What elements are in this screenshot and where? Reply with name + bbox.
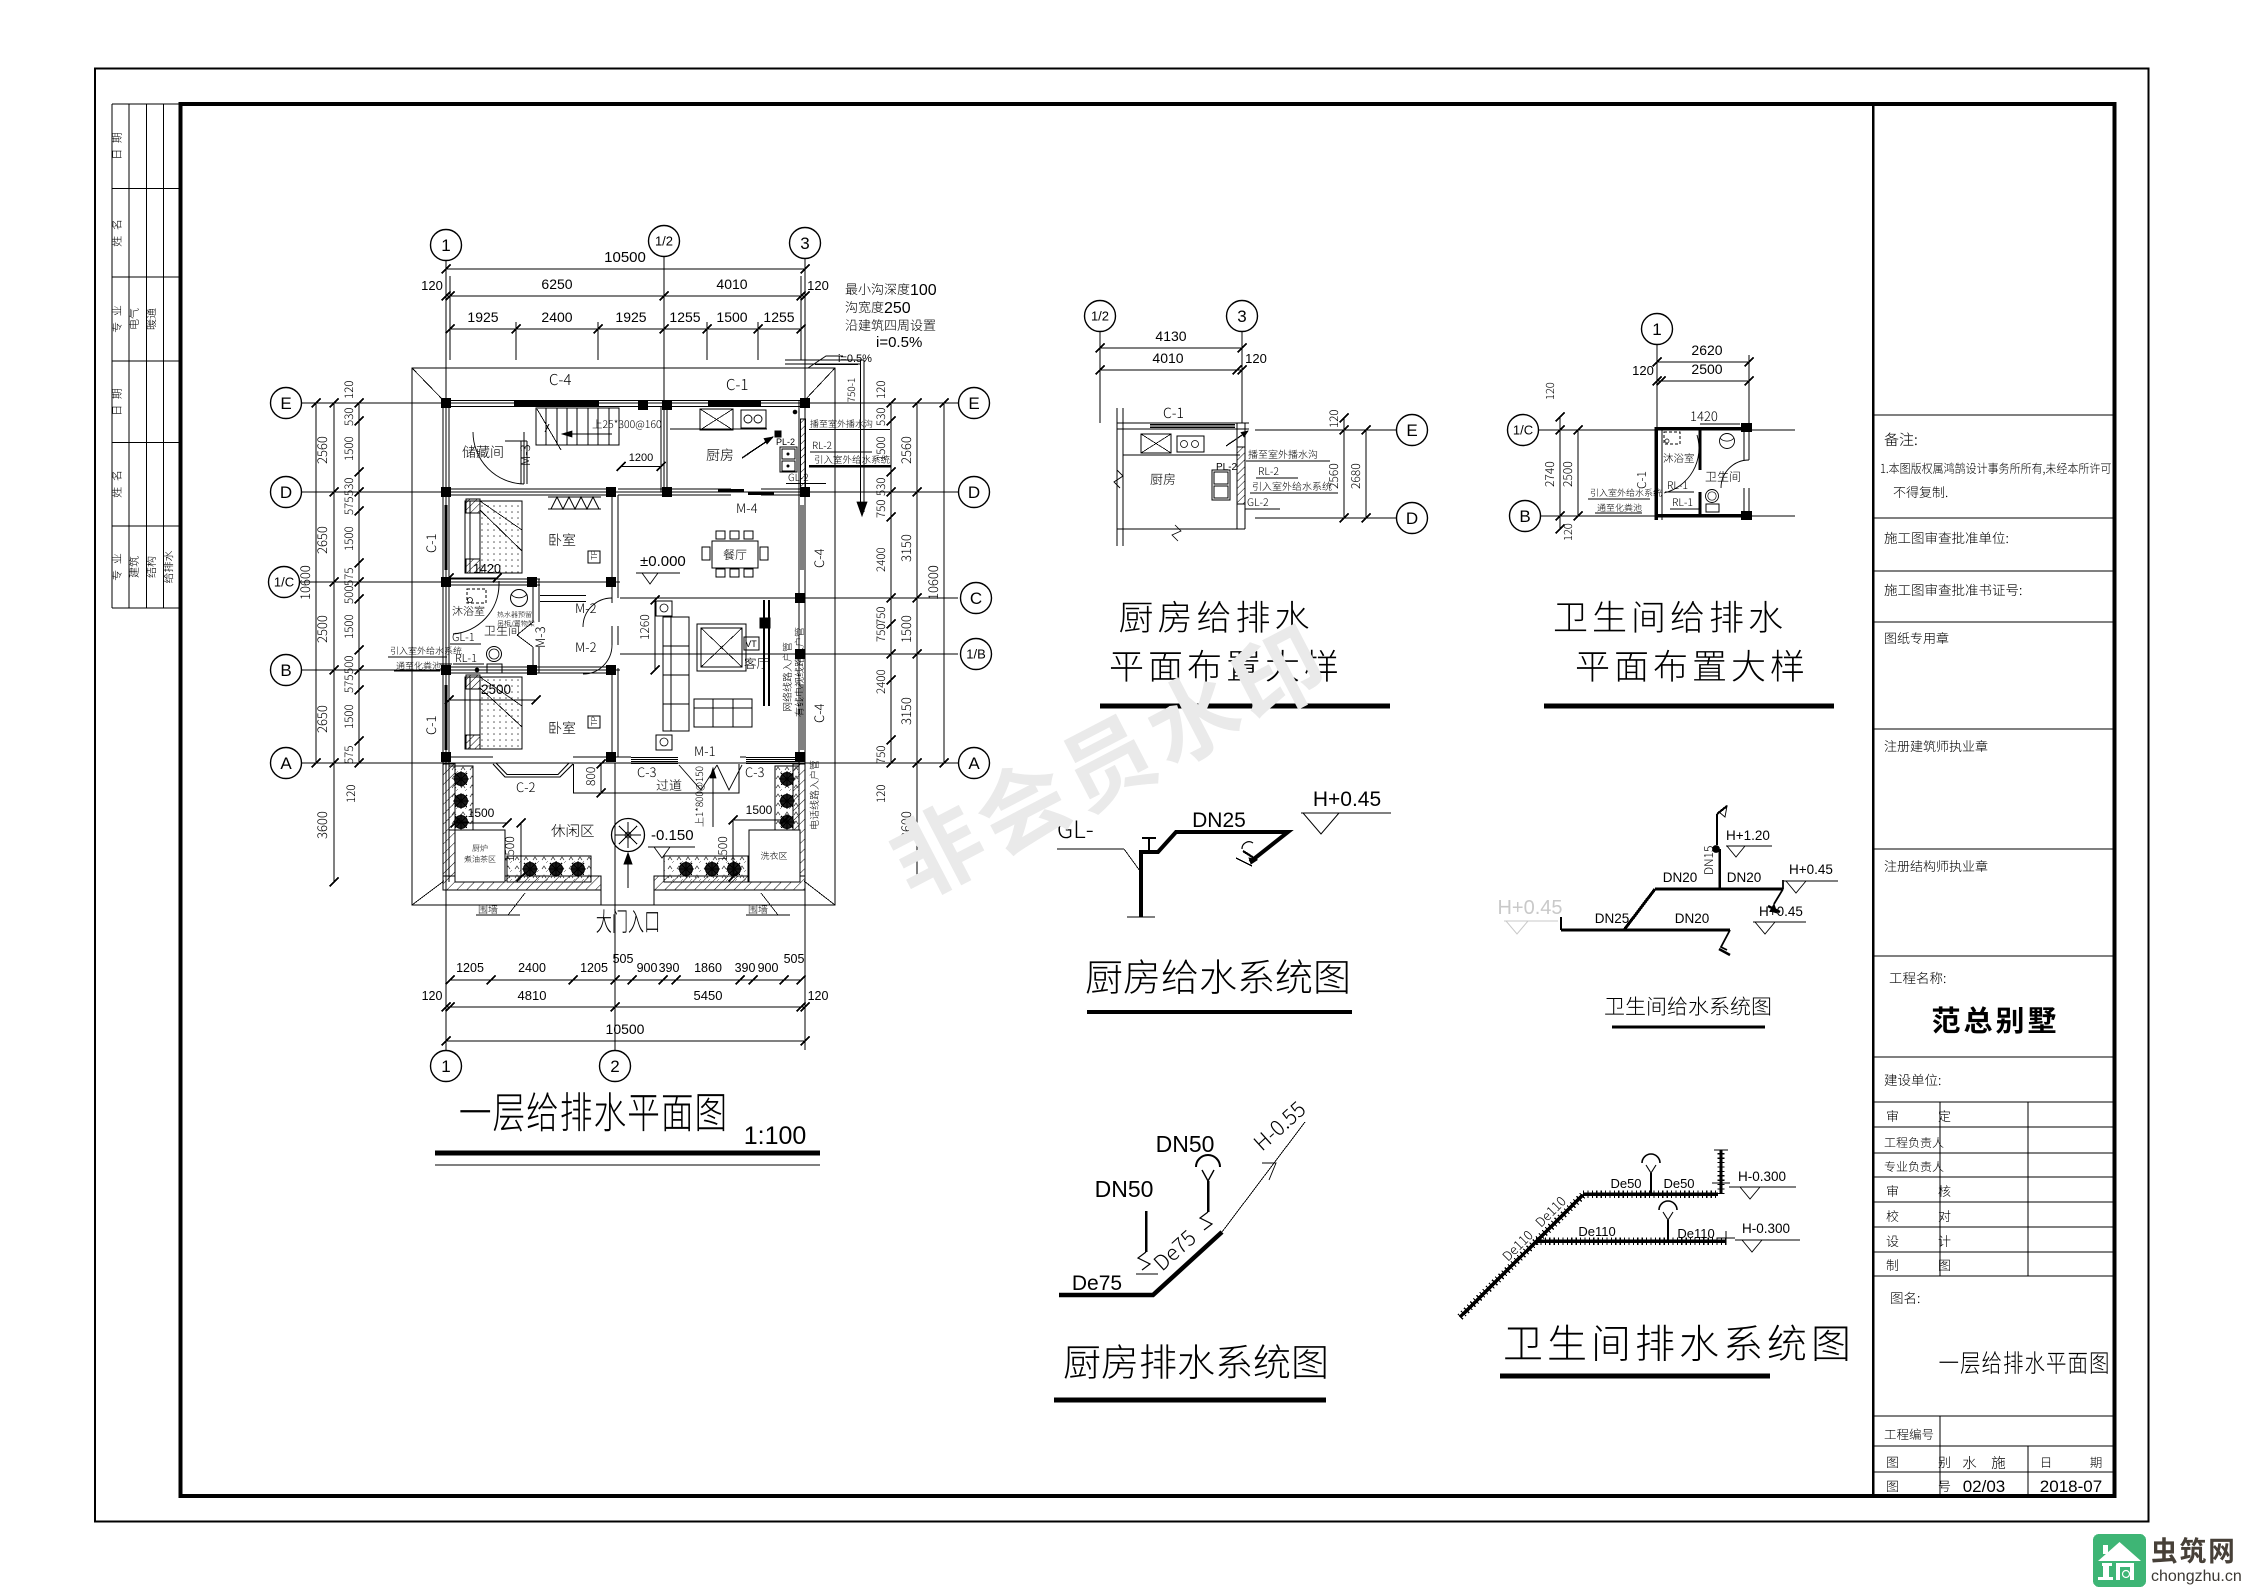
- grid bubble 1/C left: [269, 567, 300, 598]
- bath detail inlet labels: [1591, 488, 1662, 496]
- title block small table columns: [1939, 1102, 1941, 1276]
- grid line C right: [620, 597, 958, 599]
- door M-2 upper: [583, 598, 612, 627]
- bath detail dim 120/2500: [1657, 380, 1749, 382]
- bay window C-2: [493, 764, 573, 777]
- kitchen detail pipe labels: [1248, 450, 1317, 459]
- kitchen drain funnel riser elbow: [1200, 1212, 1212, 1230]
- bath drain lower right marker: [1717, 1237, 1735, 1239]
- svg-text:H-0.300: H-0.300: [1738, 1169, 1786, 1184]
- gutter leader: [808, 356, 843, 368]
- courtyard bottom wall hatched: [443, 876, 601, 890]
- svg-text:1205: 1205: [456, 961, 484, 975]
- door M-1 double swing: [679, 765, 717, 790]
- bath supply upper pipe: [1655, 888, 1783, 891]
- sofa long vertical: [663, 617, 689, 731]
- bathroom toilet: [487, 647, 502, 662]
- bath supply right lower elbow: [1721, 930, 1730, 950]
- kitchen supply riser base: [1127, 916, 1155, 918]
- svg-text:DN50: DN50: [1095, 1176, 1154, 1202]
- courtyard left wall hatched: [443, 764, 455, 876]
- bath detail door arc right: [1721, 460, 1749, 488]
- kitchen detail left wall with break: [1116, 408, 1118, 546]
- grid bubble A right: [959, 748, 990, 779]
- C-3 labels: [638, 767, 656, 777]
- C-2 label: [517, 782, 535, 792]
- svg-text:120: 120: [421, 278, 443, 293]
- planter left: [449, 766, 473, 830]
- title block: [1872, 104, 1875, 1496]
- left revision strip table: [112, 104, 181, 608]
- bath detail dim 2620: [1657, 361, 1749, 363]
- kitchen pipe labels: [810, 419, 872, 427]
- VT box: [744, 637, 759, 650]
- vestibule wall along C: [540, 595, 586, 597]
- svg-text:6250: 6250: [541, 276, 572, 292]
- svg-text:1255: 1255: [669, 309, 700, 325]
- kitchen drain title: [1065, 1344, 1326, 1379]
- grid line 2 vertical: [614, 763, 616, 1050]
- dining chairs: [716, 531, 725, 539]
- M-4 label: [737, 504, 757, 513]
- svg-text:505: 505: [784, 952, 805, 966]
- svg-text:B: B: [1519, 507, 1530, 526]
- tree: [612, 819, 645, 852]
- bath supply right upper elbow: [1782, 880, 1784, 889]
- bath drain De110 rotated labels: [1502, 1230, 1533, 1261]
- svg-text:DN20: DN20: [1663, 870, 1698, 885]
- top dimension chain 120/6250/4010/120: [446, 295, 805, 297]
- grid line A: [302, 762, 958, 764]
- svg-text:H-0.300: H-0.300: [1742, 1221, 1790, 1236]
- grid bubble E right: [959, 388, 990, 419]
- grid bubble 2 bottom: [600, 1051, 631, 1082]
- gutter channel at right: [785, 359, 864, 361]
- svg-text:DN25: DN25: [1595, 911, 1630, 926]
- bath detail room walls: [1654, 427, 1658, 520]
- door M-2 lower: [583, 645, 612, 674]
- eave outline: [412, 368, 835, 905]
- stair run: [536, 408, 619, 445]
- bedroom2 bed: [465, 677, 522, 749]
- bath supply diagonal: [1624, 889, 1655, 930]
- right dim total 10600: [943, 403, 945, 763]
- shower door arc: [453, 585, 499, 634]
- bath detail grid B: [1541, 515, 1795, 517]
- bath drain diagonal: [1460, 1195, 1583, 1317]
- svg-text:A: A: [968, 754, 980, 773]
- kitchen detail top wall: [1117, 422, 1249, 424]
- left dim total 10600: [315, 403, 317, 763]
- flowers bottom left planter: [524, 863, 537, 876]
- M-2 M-3 labels: [576, 603, 596, 613]
- wall A segments: [443, 756, 493, 758]
- stair up arrow: [562, 433, 612, 435]
- svg-text:D: D: [968, 483, 980, 502]
- svg-text:DN50: DN50: [1156, 1131, 1215, 1157]
- window C-1 left bedroom2: [444, 685, 446, 750]
- kitchen detail vertical dims: [1343, 418, 1345, 518]
- svg-text:100: 100: [910, 282, 937, 299]
- fence label right: [749, 905, 768, 914]
- svg-text:1/C: 1/C: [274, 575, 294, 590]
- svg-text:D: D: [280, 483, 292, 502]
- wardrobe zigzag: [551, 497, 599, 509]
- svg-text:1/2: 1/2: [1091, 309, 1109, 324]
- outer wall top E: [443, 400, 805, 402]
- planter bottom left: [507, 856, 591, 882]
- svg-text:DN20: DN20: [1675, 911, 1710, 926]
- bath detail washbasin: [1720, 434, 1735, 449]
- svg-text:B: B: [280, 661, 291, 680]
- kitchen detail title: [1120, 601, 1308, 633]
- svg-text:2500: 2500: [481, 682, 511, 697]
- kitchen drain funnel: [1196, 1155, 1220, 1167]
- storage closet wall stub: [505, 440, 527, 442]
- bath detail shower arc: [1664, 435, 1699, 493]
- dim 1420 bathroom: [449, 577, 497, 579]
- dim 1200 stair: [621, 466, 661, 468]
- svg-text:±0.000: ±0.000: [640, 553, 686, 570]
- left dim chain fine: [358, 403, 360, 763]
- kitchen detail dim 4010/120: [1100, 369, 1242, 371]
- kitchen detail right wall: [1236, 423, 1238, 529]
- bath detail divider: [1699, 427, 1702, 470]
- plan title: [460, 1092, 724, 1131]
- grid bubble 3 top: [790, 228, 821, 259]
- grid bubble 1 top: [431, 230, 462, 261]
- chongzhu logo green square: [2093, 1534, 2146, 1587]
- logo text chongzhu: [2152, 1537, 2233, 1564]
- kitchen detail room label: [1151, 473, 1175, 485]
- dining table: [712, 541, 758, 568]
- kitchen detail right mini grid E: [1255, 429, 1396, 431]
- kitchen detail window C-1: [1150, 424, 1235, 426]
- grid bubble A left: [271, 748, 302, 779]
- right dim chain spans: [916, 403, 918, 882]
- svg-text:DN25: DN25: [1192, 809, 1246, 832]
- svg-text:10500: 10500: [606, 1021, 645, 1037]
- kitchen counter sink: [700, 409, 733, 430]
- svg-text:4130: 4130: [1155, 328, 1186, 344]
- flowers left planter: [455, 773, 468, 786]
- grid line 1 vertical: [445, 261, 447, 1050]
- bath drain vent riser: [1720, 1150, 1723, 1194]
- title block texts: [1885, 432, 1917, 446]
- window C-4 right 2: [800, 685, 802, 750]
- grid bubble B left: [271, 655, 302, 686]
- svg-text:1: 1: [441, 236, 450, 255]
- bath drain lower funnel: [1659, 1201, 1677, 1210]
- svg-text:De110: De110: [1677, 1226, 1714, 1241]
- bath detail fixtures top-left: [1664, 432, 1680, 444]
- grid line 1/2 vertical: [663, 257, 665, 492]
- kitchen detail counter: [1123, 454, 1240, 456]
- dim 800 corridor: [600, 764, 602, 793]
- svg-text:250: 250: [884, 300, 911, 317]
- kitchen label: [707, 448, 733, 461]
- window C-3 left in wall A: [631, 757, 678, 759]
- svg-text:H+0.45: H+0.45: [1313, 788, 1381, 811]
- svg-text:4810: 4810: [518, 988, 547, 1003]
- svg-text:390: 390: [735, 961, 756, 975]
- bath detail labels: [1663, 453, 1693, 463]
- bathroom labels: [452, 606, 484, 616]
- svg-text:i=0.5%: i=0.5%: [838, 353, 872, 365]
- kitchen detail arrow: [1226, 431, 1248, 446]
- bedroom1 nightstands: [466, 499, 480, 513]
- top dim extension lines: [449, 322, 451, 360]
- kitchen wall vertical: [660, 406, 662, 492]
- dim 2500 bathroom: [449, 699, 536, 701]
- eave corner diagonals: [412, 368, 444, 401]
- svg-text:2620: 2620: [1691, 342, 1722, 358]
- outer wall left: [442, 401, 444, 883]
- hall wall vertical: [611, 495, 613, 598]
- door M-3 bath V: [517, 622, 533, 635]
- kitchen drain slope line: [1222, 1122, 1305, 1232]
- kitchen supply title: [1087, 959, 1348, 994]
- bath supply lower pipe: [1561, 929, 1730, 932]
- svg-text:3: 3: [800, 234, 809, 253]
- svg-text:1/C: 1/C: [1513, 423, 1533, 438]
- svg-text:1500: 1500: [468, 806, 495, 820]
- entry arrow: [627, 853, 629, 888]
- svg-text:4010: 4010: [1152, 350, 1183, 366]
- svg-text:1/B: 1/B: [966, 647, 986, 662]
- svg-text:1860: 1860: [694, 961, 722, 975]
- small table labels: [1887, 1110, 1950, 1122]
- svg-text:1255: 1255: [763, 309, 794, 325]
- svg-text:02/03: 02/03: [1963, 1477, 2006, 1496]
- window C-3 right in wall A: [746, 757, 799, 759]
- grid line 3 vertical: [804, 259, 806, 1050]
- svg-text:1420: 1420: [473, 562, 501, 576]
- sofa lower: [694, 699, 752, 727]
- svg-text:E: E: [1406, 421, 1417, 440]
- kitchen detail sink cabinet: [1212, 470, 1230, 500]
- dim 1260: [654, 600, 656, 670]
- main drawing frame: [181, 104, 2115, 1496]
- bedroom1 label: [550, 533, 576, 546]
- svg-text:PL-2: PL-2: [1216, 462, 1238, 473]
- top dimension chain fine: [450, 328, 801, 330]
- kitchen supply pipe: [1141, 832, 1288, 917]
- corridor outline: [574, 764, 740, 793]
- kitchen pipe shaft hatched: [801, 419, 806, 491]
- grid bubble C right: [961, 583, 992, 614]
- kitchen counter edge: [670, 428, 767, 430]
- door M-3 storage: [523, 432, 525, 484]
- window C-4 top dark band: [514, 401, 599, 403]
- svg-text:-0.150: -0.150: [651, 827, 694, 844]
- svg-text:De50: De50: [1610, 1176, 1641, 1191]
- bath detail toilet: [1706, 490, 1719, 503]
- bath drain title: [1505, 1325, 1847, 1361]
- svg-text:1925: 1925: [467, 309, 498, 325]
- grid bubble E left: [271, 388, 302, 419]
- grid bubble D right: [959, 477, 990, 508]
- bath supply DN15 riser: [1718, 849, 1721, 889]
- cable risers: [763, 600, 765, 706]
- svg-text:1/2: 1/2: [655, 234, 673, 249]
- title block small table rows: [1873, 1126, 2115, 1128]
- storage label: [462, 445, 502, 458]
- bottom dim row fine: [450, 979, 801, 981]
- bath drain upper pipe: [1583, 1192, 1718, 1196]
- svg-text:505: 505: [613, 952, 634, 966]
- kitchen drain H-0.55 rotated: [1253, 1100, 1306, 1150]
- kitchen supply faucet: [1242, 842, 1253, 849]
- watermark: [881, 617, 1332, 907]
- svg-text:1:100: 1:100: [744, 1122, 807, 1150]
- kitchen detail grid bubble 1/2: [1085, 301, 1116, 332]
- planter bottom right: [664, 856, 748, 882]
- kitchen side cabinet: [780, 447, 797, 472]
- corridor label: [657, 779, 682, 791]
- grid line 1/B right: [620, 653, 958, 655]
- leisure label: [551, 824, 593, 837]
- svg-text:De110: De110: [1578, 1224, 1615, 1239]
- grid bubble 1/2 top: [649, 226, 680, 257]
- svg-text:4010: 4010: [716, 276, 747, 292]
- svg-text:D: D: [1406, 509, 1418, 528]
- stair break line: [537, 409, 561, 450]
- bath detail grid bubble 1: [1642, 314, 1673, 345]
- svg-text:2400: 2400: [541, 309, 572, 325]
- svg-text:1205: 1205: [580, 961, 608, 975]
- svg-text:2500: 2500: [1691, 361, 1722, 377]
- svg-text:1500: 1500: [746, 803, 773, 817]
- courtyard dims 1500: [455, 822, 507, 824]
- svg-text:1500: 1500: [716, 309, 747, 325]
- courtyard right wall hatched: [793, 764, 805, 876]
- svg-text:5450: 5450: [694, 988, 723, 1003]
- grid line D: [302, 491, 958, 493]
- kitchen drain main pipe: [1059, 1232, 1222, 1295]
- svg-text:2018-07: 2018-07: [2040, 1477, 2102, 1496]
- gutter note text: [846, 283, 910, 295]
- svg-text:E: E: [280, 394, 291, 413]
- kitchen arrow: [742, 437, 773, 458]
- drawing name in title block: [1939, 1351, 2107, 1374]
- right dim chain fine: [890, 403, 892, 763]
- svg-text:120: 120: [422, 989, 443, 1003]
- grid line B: [302, 669, 620, 671]
- svg-text:900: 900: [758, 961, 779, 975]
- bottom dim row 2: [446, 1006, 805, 1008]
- grid line E: [302, 402, 958, 404]
- bedroom1 bed: [465, 501, 522, 573]
- grid line 1/C: [300, 581, 620, 583]
- wall C-1 rotated labels left: [426, 534, 436, 552]
- bath supply title: [1605, 996, 1770, 1015]
- left dim chain spans: [333, 403, 335, 882]
- kitchen supply GL- label: [1058, 820, 1092, 838]
- kitchen supply leader: [1057, 848, 1124, 850]
- cable labels right rotated: [783, 643, 792, 711]
- stair note rotated: [695, 767, 705, 827]
- kitchen drain tee tick: [1136, 1273, 1158, 1275]
- bathroom bottom wall B: [443, 666, 612, 668]
- flowers bottom right planter: [680, 863, 693, 876]
- grid bubble D left: [271, 477, 302, 508]
- svg-text:A: A: [280, 754, 292, 773]
- window C-1 top kitchen dark band: [708, 401, 761, 403]
- svg-text:H+0.45: H+0.45: [1789, 862, 1833, 877]
- bedroom2 label: [550, 721, 576, 734]
- svg-text:1: 1: [1652, 320, 1661, 339]
- svg-text:C: C: [970, 589, 982, 608]
- svg-text:390: 390: [659, 961, 680, 975]
- kitchen detail grid bubble 3: [1227, 301, 1258, 332]
- svg-text:De75: De75: [1072, 1272, 1122, 1295]
- bath detail title: [1555, 601, 1782, 633]
- rug with X: [697, 624, 746, 671]
- svg-text:1925: 1925: [615, 309, 646, 325]
- window C-1 left bedroom1: [444, 505, 446, 570]
- svg-text:3: 3: [1237, 307, 1246, 326]
- kitchen detail dim 4130: [1100, 347, 1242, 349]
- TP boxes: [588, 551, 600, 563]
- door M-4 kitchen sliding: [718, 489, 744, 491]
- bath detail dims left: [1559, 417, 1561, 529]
- svg-text:900: 900: [637, 961, 658, 975]
- svg-text:120: 120: [1245, 351, 1267, 366]
- svg-text:1200: 1200: [629, 452, 653, 464]
- kitchen supply valve: [1148, 838, 1150, 852]
- svg-text:E: E: [968, 394, 979, 413]
- tea area box: [455, 830, 505, 882]
- kitchen drain left riser: [1145, 1211, 1148, 1252]
- project name 范总别墅: [1933, 1006, 2056, 1033]
- M-1 label: [695, 747, 714, 756]
- gate entry label: [597, 909, 659, 933]
- kitchen stove: [741, 410, 766, 428]
- bottom dim total: [446, 1040, 805, 1042]
- bathroom washbasin: [511, 590, 528, 607]
- logo house icon: [2098, 1542, 2141, 1561]
- fence label left: [479, 905, 498, 914]
- svg-text:PL-2: PL-2: [776, 437, 795, 447]
- kitchen detail bottom break: [1117, 528, 1245, 530]
- svg-text:DN20: DN20: [1727, 870, 1762, 885]
- svg-text:H+1.20: H+1.20: [1726, 828, 1770, 843]
- svg-text:10500: 10500: [604, 249, 646, 266]
- wall C-4 rotated labels right: [814, 549, 824, 567]
- flowers right planter: [781, 773, 794, 786]
- armchair squares: [656, 601, 672, 616]
- living room label: [745, 657, 769, 668]
- laundry area box: [749, 830, 800, 882]
- svg-text:De50: De50: [1663, 1176, 1694, 1191]
- window top labels: [550, 374, 571, 385]
- left strip labels: [112, 133, 122, 158]
- svg-text:1: 1: [441, 1057, 450, 1076]
- columns: [441, 398, 451, 408]
- bath drain upper funnel: [1642, 1154, 1660, 1163]
- top dimension chain total 10500: [446, 268, 805, 270]
- grid bubble 1/B right: [961, 639, 992, 670]
- svg-text:H+0.45: H+0.45: [1497, 897, 1562, 919]
- bathroom top wall 1/C: [443, 578, 540, 580]
- planter right: [775, 766, 799, 830]
- bedroom2 nightstands: [466, 675, 480, 689]
- grid bubble 1 bottom: [431, 1051, 462, 1082]
- bath detail grid 1/C: [1539, 429, 1795, 431]
- svg-text:120: 120: [1632, 363, 1654, 378]
- svg-text:2400: 2400: [518, 961, 546, 975]
